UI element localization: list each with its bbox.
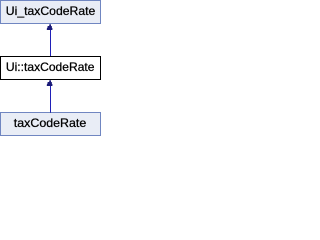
node Ui::taxCodeRate — [1, 57, 101, 80]
svg-text:Ui_taxCodeRate: Ui_taxCodeRate — [6, 4, 96, 18]
arrow shaft junction pixel on box border — [50, 112, 51, 113]
inheritance arrow from Ui::taxCodeRate to Ui_taxCodeRate — [47, 24, 53, 56]
inheritance arrow from taxCodeRate to Ui::taxCodeRate — [47, 80, 53, 112]
node Ui_taxCodeRate — [1, 1, 101, 24]
svg-text:taxCodeRate: taxCodeRate — [14, 116, 87, 130]
svg-text:Ui::taxCodeRate: Ui::taxCodeRate — [6, 60, 95, 74]
node taxCodeRate — [1, 112, 101, 136]
